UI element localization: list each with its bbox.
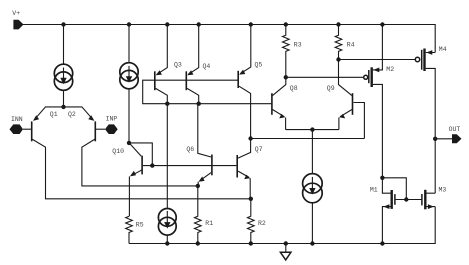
node M1 M3 gate junction	[404, 197, 408, 201]
transistor M1	[370, 178, 395, 244]
wire OUT	[435, 138, 452, 140]
svg-text:R4: R4	[347, 42, 355, 49]
svg-text:R2: R2	[258, 220, 266, 227]
current source I4	[303, 130, 323, 244]
svg-text:Q5: Q5	[255, 62, 263, 69]
svg-text:Q7: Q7	[255, 146, 263, 153]
svg-text:M3: M3	[439, 187, 447, 194]
node tail of input pair	[61, 105, 65, 109]
pin V+	[12, 10, 23, 29]
wire Q8 Q9 emitter rail	[286, 129, 339, 131]
svg-text:R3: R3	[294, 42, 302, 49]
transistor Q3	[155, 25, 182, 104]
wire Q1 collector to R2 node	[33, 139, 251, 198]
node M1 drain junction	[380, 176, 384, 180]
svg-text:INP: INP	[106, 116, 118, 123]
wire Q10 base link	[129, 143, 152, 166]
node Q3 collector junction	[165, 102, 169, 106]
pin OUT	[449, 126, 462, 143]
resistor R4	[335, 25, 355, 60]
svg-text:M4: M4	[439, 46, 447, 53]
svg-text:Q1: Q1	[50, 111, 58, 118]
svg-text:M1: M1	[370, 187, 378, 194]
svg-text:Q2: Q2	[68, 111, 76, 118]
svg-text:R1: R1	[205, 220, 213, 227]
wire M2 gate net	[286, 76, 364, 78]
node Q10 base junction	[150, 163, 154, 167]
ground	[280, 244, 291, 260]
svg-text:Q10: Q10	[112, 148, 124, 155]
svg-text:V+: V+	[12, 10, 20, 17]
svg-text:M2: M2	[386, 66, 394, 73]
node Q10 collector	[127, 141, 131, 145]
node R3 Q8 collector	[284, 75, 288, 79]
transistor M3	[422, 187, 447, 210]
current source I3	[158, 104, 176, 244]
wire base rail Q10 Q6 Q7	[143, 165, 237, 167]
resistor R2	[248, 199, 266, 244]
node rail junctions	[61, 22, 384, 26]
wire Q2 collector to R1 node	[82, 139, 198, 186]
wire V+ rail	[23, 25, 435, 53]
transistor Q7	[237, 139, 263, 199]
transistor Q1	[23, 111, 58, 141]
svg-text:INN: INN	[11, 116, 23, 123]
transistor M2	[364, 25, 395, 178]
svg-text:Q6: Q6	[186, 146, 194, 153]
svg-text:OUT: OUT	[449, 126, 461, 133]
node OUT junction	[433, 137, 437, 141]
wire Q2 emitter lead	[64, 107, 94, 120]
resistor R1	[195, 186, 214, 244]
node Q6 emitter R1	[196, 184, 200, 188]
node Q4 collector junction	[197, 102, 201, 106]
transistor Q9	[327, 60, 365, 139]
wire Q1 emitter lead	[34, 107, 63, 120]
transistor Q10	[112, 143, 142, 216]
transistor Q6	[186, 104, 212, 186]
current source I2	[120, 25, 138, 143]
svg-text:Q8: Q8	[290, 85, 298, 92]
wire ground rail	[129, 207, 435, 244]
current source I1	[54, 25, 72, 107]
transistor Q5	[238, 25, 262, 139]
node emitter rail to I4	[310, 127, 314, 131]
resistor R5	[126, 216, 144, 243]
transistor Q8	[272, 77, 298, 129]
svg-text:R5: R5	[136, 221, 144, 228]
wire base rail Q3 Q4 Q5	[143, 80, 272, 104]
transistor M4	[415, 46, 446, 193]
svg-text:Q9: Q9	[327, 85, 335, 92]
pin INP	[105, 116, 118, 134]
wire Q9 base net	[251, 138, 365, 140]
node rail bottom junctions	[165, 241, 384, 245]
transistor Q2	[68, 111, 105, 141]
wire M1 M3 gate rail	[396, 199, 422, 201]
svg-text:Q4: Q4	[203, 63, 211, 70]
node R4 Q9 collector	[336, 57, 340, 61]
resistor R3	[283, 25, 302, 78]
pin INN	[10, 116, 24, 134]
node Q5 Q7 collector junction	[248, 136, 252, 140]
node Q7 emitter R2	[249, 197, 253, 201]
transistor Q4	[186, 25, 210, 104]
svg-text:Q3: Q3	[174, 62, 182, 69]
wire M1 drain to gate	[382, 178, 406, 200]
wire M4 gate net	[339, 59, 416, 61]
